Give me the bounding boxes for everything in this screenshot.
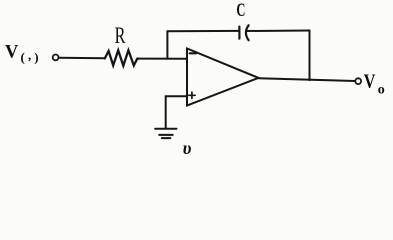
op-amp U1 noninverting input marker <box>189 92 195 98</box>
wire output <box>259 78 356 81</box>
ground <box>155 129 176 138</box>
svg-text:o: o <box>378 83 385 98</box>
svg-text:,: , <box>28 47 31 62</box>
svg-text:(: ( <box>21 49 25 64</box>
node Vo label <box>364 71 385 97</box>
capacitor C <box>239 25 248 40</box>
svg-text:C: C <box>236 1 245 21</box>
wire feedback top right <box>246 30 309 33</box>
svg-text:V: V <box>364 71 376 92</box>
wire noninverting input <box>166 96 187 128</box>
svg-text:R: R <box>115 23 126 48</box>
wire feedback top left <box>167 30 239 32</box>
op-amp U1 inverting input marker <box>190 52 197 54</box>
resistor R <box>105 50 138 65</box>
svg-text:): ) <box>34 49 38 64</box>
op-amp U1 <box>187 49 259 106</box>
input terminal <box>53 55 59 61</box>
node Vin label V(s) <box>5 43 39 65</box>
wire feedback left vertical <box>166 31 168 58</box>
output terminal <box>355 78 361 84</box>
svg-text:V: V <box>5 43 19 63</box>
wire resistor to inverting input <box>137 58 187 60</box>
wire feedback right vertical <box>309 31 311 81</box>
svg-text:υ: υ <box>183 138 192 158</box>
wire input terminal to resistor <box>59 57 105 60</box>
